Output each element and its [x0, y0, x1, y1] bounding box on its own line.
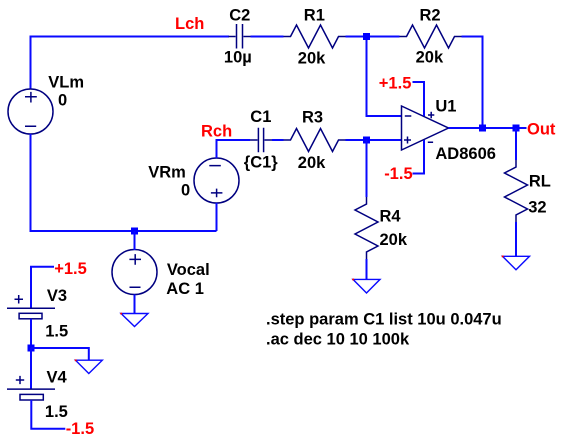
junction RL output: [513, 125, 520, 132]
svg-text:R3: R3: [302, 109, 323, 127]
svg-text:C1: C1: [250, 108, 271, 126]
op-amp U1: [402, 106, 449, 150]
wire R3 to non-inverting input: [346, 139, 402, 141]
svg-text:AD8606: AD8606: [435, 145, 496, 163]
svg-text:20k: 20k: [298, 154, 326, 172]
svg-text:.ac dec 10 10 100k: .ac dec 10 10 100k: [266, 331, 410, 349]
junction R3 R4 input: [363, 137, 370, 144]
wire junction down to R4: [366, 140, 368, 197]
wire top-left vertical from corner to VLm: [30, 36, 32, 90]
wire rail to Vocal top: [134, 231, 136, 250]
wire R2 to feedback corner down to output: [462, 37, 483, 129]
svg-text:-1.5: -1.5: [66, 420, 94, 438]
svg-text:RL: RL: [529, 172, 551, 190]
svg-text:20k: 20k: [298, 49, 326, 67]
voltage source VRm: [194, 158, 239, 203]
voltage source Vocal: [112, 250, 157, 295]
svg-text:-1.5: -1.5: [384, 165, 412, 183]
svg-text:VLm: VLm: [48, 74, 84, 92]
wire Out down to RL: [515, 128, 517, 160]
resistor R3: [284, 129, 346, 152]
wire top horizontal Lch net: [30, 36, 230, 38]
wire Vocal bottom to ground: [134, 295, 136, 314]
wire VRm top to Rch net: [217, 140, 251, 158]
svg-text:.step param C1 list 10u 0.047u: .step param C1 list 10u 0.047u: [266, 311, 502, 329]
svg-text:0: 0: [58, 92, 67, 110]
svg-text:Vocal: Vocal: [167, 261, 210, 279]
svg-text:R4: R4: [380, 207, 402, 225]
svg-text:U1: U1: [435, 97, 456, 115]
wire V3 bottom to junction: [30, 319, 32, 348]
svg-text:0: 0: [181, 182, 190, 200]
wire junction down to V4: [30, 348, 32, 389]
svg-text:V3: V3: [47, 287, 67, 305]
capacitor C1: [250, 128, 272, 153]
battery V3: [7, 295, 55, 319]
wire node to inverting input: [367, 37, 402, 117]
ground Vocal: [121, 314, 148, 327]
svg-text:R2: R2: [420, 6, 441, 24]
svg-text:Rch: Rch: [201, 122, 232, 140]
wire R4 to ground: [366, 259, 368, 279]
svg-text:C2: C2: [229, 6, 250, 24]
svg-text:+1.5: +1.5: [379, 74, 412, 92]
junction V3 V4 ground: [28, 345, 35, 352]
junction feedback output: [479, 125, 486, 132]
wire VLm bottom rail: [31, 134, 217, 231]
svg-text:R1: R1: [304, 6, 325, 24]
svg-text:Out: Out: [527, 120, 556, 138]
resistor R1: [284, 25, 346, 48]
wire R1 to R2 through node: [346, 36, 400, 38]
wire +1.5 label to V3: [31, 267, 54, 308]
resistor R2: [400, 25, 462, 48]
junction R1 R2 feedback: [363, 33, 370, 40]
junction bottom rail Vocal: [131, 228, 138, 235]
svg-text:VRm: VRm: [148, 164, 186, 182]
capacitor C2: [229, 24, 251, 49]
wire C2 to R1: [251, 36, 284, 38]
resistor RL: [505, 160, 528, 222]
ground R4: [353, 279, 380, 293]
svg-text:{C1}: {C1}: [244, 154, 279, 172]
wire -1.5 supply to op-amp: [413, 140, 425, 174]
ground corner marks: [75, 256, 504, 362]
ground RL: [503, 256, 530, 270]
wire +1.5 supply to op-amp: [413, 82, 425, 116]
resistor R4: [355, 197, 378, 259]
svg-text:32: 32: [528, 198, 546, 216]
svg-text:1.5: 1.5: [45, 322, 68, 340]
wire RL to ground: [515, 222, 517, 256]
svg-text:+1.5: +1.5: [54, 260, 87, 278]
wire C1 to R3: [272, 139, 284, 141]
svg-text:1.5: 1.5: [45, 403, 68, 421]
svg-text:20k: 20k: [380, 231, 408, 249]
voltage source VLm: [8, 89, 53, 134]
svg-text:Lch: Lch: [175, 15, 204, 33]
ground mid supply: [76, 360, 103, 373]
wire V4 bottom to -1.5 label: [31, 400, 65, 429]
wire junction to mid ground: [31, 348, 89, 360]
svg-text:10µ: 10µ: [224, 48, 252, 66]
svg-text:AC 1: AC 1: [166, 280, 204, 298]
wire op-amp output to Out: [449, 127, 527, 129]
battery V4: [7, 376, 55, 400]
svg-text:20k: 20k: [416, 48, 444, 66]
svg-text:V4: V4: [47, 368, 68, 386]
wire VRm bottom stub: [216, 203, 218, 231]
